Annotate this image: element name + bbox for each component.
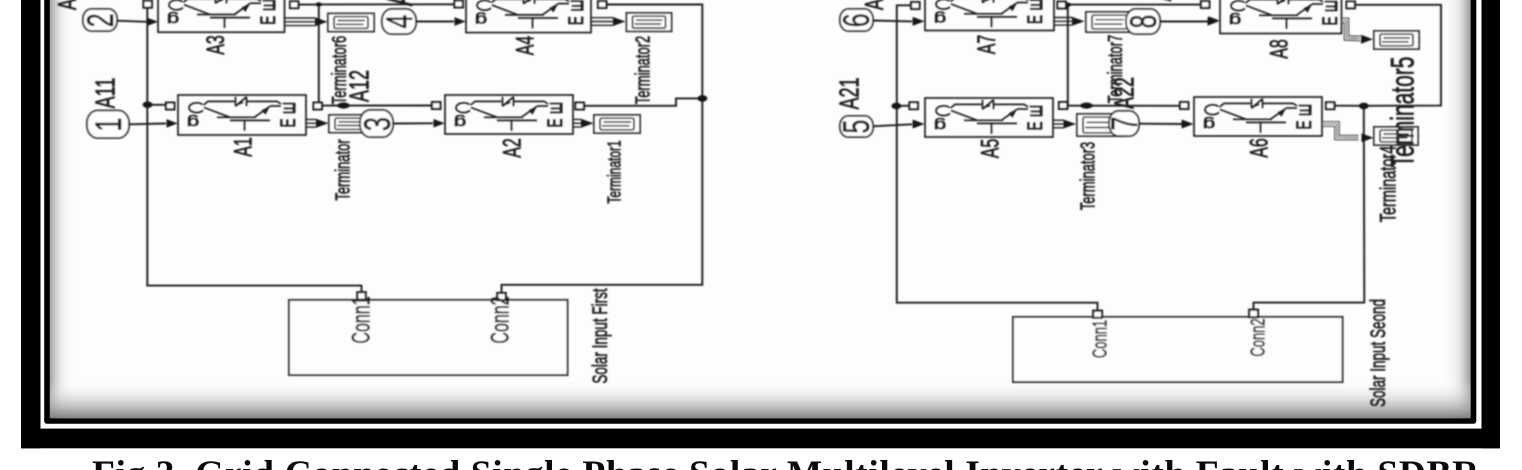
transistor A2 (IGBT block) xyxy=(445,95,573,134)
figure frame outer black bar bottom xyxy=(21,429,1500,449)
bottom inner shading xyxy=(49,380,1472,418)
wire A4 C feed xyxy=(319,3,455,5)
svg-text:g: g xyxy=(187,114,199,130)
figure frame outer black bar left xyxy=(21,0,41,448)
svg-text:Conn2: Conn2 xyxy=(487,296,514,343)
input port 7 xyxy=(1109,111,1139,136)
pin C square of A3 xyxy=(144,1,152,8)
svg-text:g: g xyxy=(475,12,487,28)
left inner shading xyxy=(49,0,77,420)
svg-text:E: E xyxy=(549,99,564,115)
svg-text:E: E xyxy=(564,16,588,25)
svg-text:A8: A8 xyxy=(1266,39,1293,59)
wire A8 E right and down to A6 row xyxy=(1355,5,1442,106)
svg-text:5: 5 xyxy=(835,120,877,134)
svg-text:A12: A12 xyxy=(344,70,375,102)
pin C square of A2 xyxy=(432,102,440,109)
gate input arrow of A3 xyxy=(147,18,158,26)
svg-text:E: E xyxy=(1298,101,1313,117)
svg-text:A5: A5 xyxy=(977,139,1004,159)
svg-text:E: E xyxy=(276,118,300,127)
wire A8 m output zigzag xyxy=(1342,21,1361,39)
wire A2 m output xyxy=(574,119,582,127)
arrow on A1-A2 wire xyxy=(337,102,349,108)
wire port 7 to A6 g xyxy=(1139,123,1183,125)
svg-text:E: E xyxy=(262,0,277,12)
pin Conn1 square of Solar Input First xyxy=(357,292,365,299)
wire A4 m output xyxy=(592,18,614,26)
junction at A7-A8 top wire xyxy=(1065,2,1071,6)
svg-text:7: 7 xyxy=(1103,117,1145,131)
transistor A1 (IGBT block) xyxy=(178,95,306,135)
svg-text:Conn1: Conn1 xyxy=(1089,320,1112,358)
wire A1 E to A2 C xyxy=(322,105,433,107)
terminator Terminator6 xyxy=(328,14,374,32)
wire A3 m output xyxy=(285,18,315,26)
wire A6 E to junction xyxy=(1334,105,1364,107)
terminator Terminator1 xyxy=(594,115,640,133)
wire port 3 to A2 g xyxy=(393,122,434,124)
svg-text:A1: A1 xyxy=(230,137,257,157)
svg-text:g: g xyxy=(1203,116,1215,132)
wire A1 m output xyxy=(307,120,317,128)
svg-text:E: E xyxy=(1029,0,1044,12)
subsystem Solar Input First xyxy=(289,300,568,375)
wire port 4 to A4 g xyxy=(416,21,455,23)
svg-text:g: g xyxy=(934,117,946,133)
svg-text:E: E xyxy=(1292,120,1316,129)
wire port 8 to A8 g xyxy=(1160,21,1209,23)
transistor A7 (IGBT block) xyxy=(925,0,1054,31)
pin E square of A2 xyxy=(576,103,584,110)
pin E square of A8 xyxy=(1347,2,1355,9)
transistor A8 (IGBT block) xyxy=(1220,0,1342,34)
terminator Terminator xyxy=(329,115,375,133)
wire A3 E to A1 E pin xyxy=(299,5,319,104)
svg-text:Conn1: Conn1 xyxy=(348,296,375,343)
wire bus from A3 C down to Solar Input First Conn1 xyxy=(147,7,361,293)
input port 4 xyxy=(382,9,416,34)
svg-text:A14: A14 xyxy=(379,0,421,6)
svg-text:E: E xyxy=(1029,102,1044,118)
gate input arrow of A6 xyxy=(1183,120,1194,128)
wire A7 m output xyxy=(1055,18,1073,26)
input port 8 xyxy=(1126,9,1160,34)
wire A5 m output xyxy=(1054,120,1064,128)
gate input arrow of A8 xyxy=(1209,16,1220,24)
wire port 1 to A1 g xyxy=(129,123,167,126)
svg-text:1: 1 xyxy=(87,118,129,132)
svg-text:8: 8 xyxy=(1122,15,1164,29)
pin C square of A4 xyxy=(455,1,463,8)
input port 2 xyxy=(83,9,117,31)
transistor A4 (IGBT block) xyxy=(466,0,591,33)
svg-text:A11: A11 xyxy=(90,78,121,109)
svg-text:A7: A7 xyxy=(974,35,1001,55)
pin E square of A7 xyxy=(1058,2,1066,9)
junction at A6 row right xyxy=(1359,103,1369,110)
svg-text:Terminator: Terminator xyxy=(332,139,355,201)
wire A6 m output zigzag xyxy=(1323,124,1359,138)
svg-text:A21: A21 xyxy=(834,77,865,109)
svg-text:E: E xyxy=(256,16,280,25)
terminator Terminator3 xyxy=(1077,114,1123,136)
wire A7 E down to A5 row xyxy=(1066,5,1068,106)
input port 1 xyxy=(87,111,129,139)
svg-text:Fig 3. Grid Connected Single P: Fig 3. Grid Connected Single Phase Solar… xyxy=(92,454,1480,470)
svg-text:E: E xyxy=(1318,16,1342,25)
terminator Terminator5 xyxy=(1374,31,1419,49)
gate input arrow of A1 xyxy=(167,119,178,127)
terminator Terminator7 xyxy=(1086,12,1133,32)
svg-text:Conn2: Conn2 xyxy=(1247,318,1270,356)
wire A2 E jog to bus xyxy=(584,98,703,105)
svg-text:Solar Input First: Solar Input First xyxy=(588,288,612,383)
subsystem Solar Input Second xyxy=(1013,317,1343,382)
input port 5 xyxy=(840,116,873,137)
pin E square of A3 xyxy=(290,1,298,8)
svg-text:g: g xyxy=(167,11,179,27)
arrow on A5-A6 wire xyxy=(1080,103,1092,109)
wire A8 C feed xyxy=(1068,4,1202,6)
wire A5 E to A6 C xyxy=(1066,105,1181,107)
svg-text:A2: A2 xyxy=(499,138,526,158)
svg-text:g: g xyxy=(1229,12,1241,28)
junction at A5 row xyxy=(891,103,901,110)
svg-text:E: E xyxy=(1023,15,1047,24)
wire bus down to Solar Input Second Conn2 xyxy=(1254,106,1365,310)
transistor A5 (IGBT block) xyxy=(925,98,1053,137)
svg-text:Terminator3: Terminator3 xyxy=(1077,142,1100,211)
pin E square of A4 xyxy=(598,1,606,8)
svg-text:A24: A24 xyxy=(1151,0,1177,1)
wire bus from A7 C down to Solar Input Second Conn1 xyxy=(897,5,1098,311)
gate input arrow of A5 xyxy=(914,120,925,128)
svg-text:E: E xyxy=(1324,0,1339,13)
figure frame outer black bar right xyxy=(1482,0,1501,448)
pin C square of A8 xyxy=(1201,1,1209,8)
pin Conn1 square of Solar Input Second xyxy=(1093,311,1102,318)
svg-text:A4: A4 xyxy=(512,36,539,56)
pin E square of A1 xyxy=(314,103,322,110)
svg-text:E: E xyxy=(543,118,567,127)
svg-text:A23: A23 xyxy=(859,0,889,10)
gate input arrow of A4 xyxy=(455,17,466,25)
svg-text:A3: A3 xyxy=(203,35,230,55)
pin E square of A5 xyxy=(1059,102,1067,109)
terminator Terminator4 xyxy=(1374,127,1418,145)
wire A4 E to bus down to Solar Input First Conn2 xyxy=(502,5,703,294)
gate input arrow of A7 xyxy=(914,17,925,25)
pin C square of A5 xyxy=(910,102,918,109)
junction at A1 row xyxy=(143,101,153,108)
pin C square of A7 xyxy=(911,2,919,9)
svg-text:g: g xyxy=(934,10,946,26)
svg-text:E: E xyxy=(282,99,297,115)
svg-text:Terminator1: Terminator1 xyxy=(605,140,625,203)
svg-text:E: E xyxy=(570,0,585,13)
right inner shading xyxy=(1441,0,1472,420)
svg-text:Terminator5: Terminator5 xyxy=(1384,57,1421,168)
svg-text:A6: A6 xyxy=(1246,138,1273,158)
pin Conn2 square of Solar Input First xyxy=(497,293,505,300)
svg-text:4: 4 xyxy=(378,15,420,29)
pin Conn2 square of Solar Input Second xyxy=(1249,310,1258,318)
svg-text:A13: A13 xyxy=(52,0,82,10)
wire port 6 to A7 g xyxy=(873,20,913,23)
wire port 5 to A5 g xyxy=(873,124,913,126)
transistor A3 (IGBT block) xyxy=(158,0,285,32)
svg-text:2: 2 xyxy=(79,13,121,27)
junction on Conn2 bus xyxy=(697,95,707,102)
input port 6 xyxy=(840,9,873,31)
transistor A6 (IGBT block) xyxy=(1194,97,1322,136)
pin C square of A6 xyxy=(1180,102,1188,109)
svg-text:3: 3 xyxy=(356,117,398,131)
wire port 2 to A3 g xyxy=(117,21,148,22)
svg-text:E: E xyxy=(1023,121,1047,130)
svg-text:Terminator2: Terminator2 xyxy=(632,36,655,105)
wire branch to A1 C pin xyxy=(147,104,167,106)
input port 3 xyxy=(360,110,393,137)
terminator Terminator2 xyxy=(627,13,672,31)
svg-text:A22: A22 xyxy=(1109,77,1140,109)
pin E square of A6 xyxy=(1326,102,1334,109)
svg-text:g: g xyxy=(454,114,466,130)
gate input arrow of A2 xyxy=(434,119,445,127)
pin C square of A1 xyxy=(166,103,174,110)
svg-text:6: 6 xyxy=(835,13,877,27)
svg-text:Solar Input Seond: Solar Input Seond xyxy=(1366,299,1390,407)
junction at A3-A4 top wire xyxy=(316,2,322,6)
wire branch to A5 C pin xyxy=(897,105,910,107)
